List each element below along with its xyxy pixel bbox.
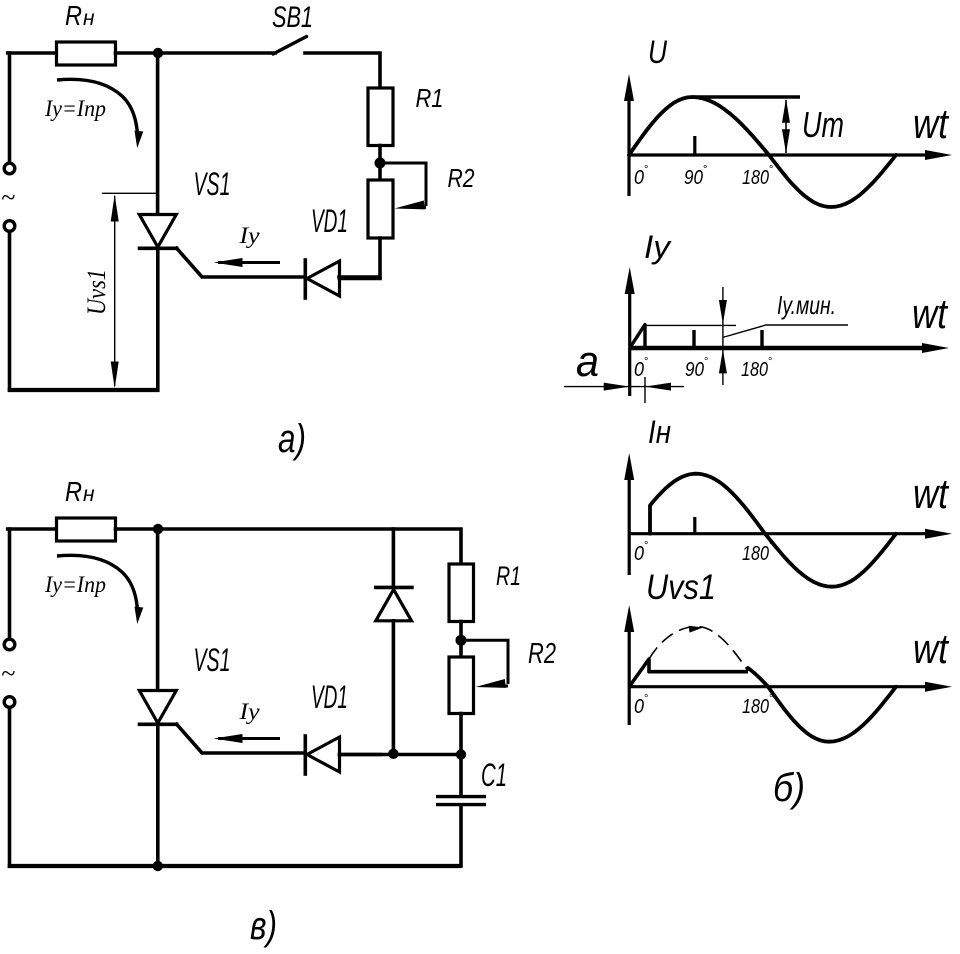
svg-text:Uvs1: Uvs1 xyxy=(82,269,111,315)
svg-text:°: ° xyxy=(644,693,648,705)
svg-text:°: ° xyxy=(644,356,648,368)
svg-text:Iy.мин.: Iy.мин. xyxy=(777,290,836,320)
svg-text:wt: wt xyxy=(913,625,950,672)
svg-text:Iy=Inp: Iy=Inp xyxy=(44,572,106,597)
svg-text:wt: wt xyxy=(913,100,950,147)
svg-text:°: ° xyxy=(769,540,773,552)
svg-text:R: R xyxy=(65,0,82,31)
svg-text:Iy: Iy xyxy=(644,229,672,265)
svg-text:°: ° xyxy=(704,356,708,368)
svg-text:0: 0 xyxy=(634,543,644,565)
svg-text:SB1: SB1 xyxy=(272,1,313,34)
svg-text:180: 180 xyxy=(742,543,769,565)
svg-text:°: ° xyxy=(644,164,648,176)
svg-text:0: 0 xyxy=(634,696,644,718)
svg-text:VD1: VD1 xyxy=(311,203,348,239)
svg-text:Iн: Iн xyxy=(648,414,671,450)
svg-text:в): в) xyxy=(250,904,277,948)
svg-text:Um: Um xyxy=(802,104,844,145)
svg-text:°: ° xyxy=(703,164,707,176)
svg-text:Iy: Iy xyxy=(238,223,260,248)
svg-text:а: а xyxy=(576,337,599,386)
svg-text:б): б) xyxy=(773,766,805,810)
svg-text:90: 90 xyxy=(684,167,703,189)
svg-text:R: R xyxy=(65,476,82,507)
svg-text:°: ° xyxy=(769,164,773,176)
svg-text:~: ~ xyxy=(1,659,15,688)
svg-text:R1: R1 xyxy=(416,83,444,113)
svg-text:R2: R2 xyxy=(448,163,475,193)
svg-text:Uvs1: Uvs1 xyxy=(646,568,716,607)
svg-text:VD1: VD1 xyxy=(311,679,348,715)
svg-text:н: н xyxy=(83,483,95,506)
svg-text:180: 180 xyxy=(741,359,768,381)
svg-text:0: 0 xyxy=(634,359,644,381)
svg-text:C1: C1 xyxy=(481,757,507,793)
svg-text:~: ~ xyxy=(1,183,15,212)
svg-text:R1: R1 xyxy=(496,561,521,591)
svg-text:90: 90 xyxy=(685,359,704,381)
svg-text:U: U xyxy=(648,34,668,70)
svg-text:180: 180 xyxy=(742,167,769,189)
svg-text:°: ° xyxy=(644,540,648,552)
svg-text:0: 0 xyxy=(634,167,644,189)
svg-text:VS1: VS1 xyxy=(194,166,231,202)
svg-text:°: ° xyxy=(769,693,773,705)
svg-text:wt: wt xyxy=(913,470,950,517)
svg-text:Iy=Inp: Iy=Inp xyxy=(44,96,106,121)
svg-text:180: 180 xyxy=(742,696,769,718)
svg-text:н: н xyxy=(83,7,95,30)
svg-text:VS1: VS1 xyxy=(194,642,231,678)
svg-text:wt: wt xyxy=(912,290,949,337)
svg-text:R2: R2 xyxy=(528,638,556,670)
svg-text:°: ° xyxy=(768,356,772,368)
svg-text:а): а) xyxy=(278,417,306,461)
svg-text:Iy: Iy xyxy=(238,699,260,724)
